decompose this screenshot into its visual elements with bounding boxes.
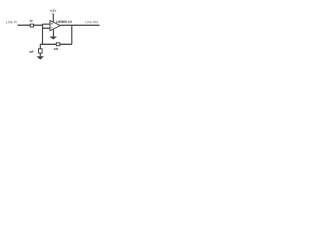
- ground C2: [37, 57, 44, 60]
- op-amp minus input marker: [51, 27, 52, 29]
- wire feedback bottom right segment: [60, 43, 72, 45]
- wire non-inverting input stub: [43, 23, 51, 25]
- resistor R1: [56, 43, 60, 46]
- wire vertical feedback branch: [42, 24, 44, 44]
- wire output to Line Out: [60, 24, 99, 26]
- op-amp U1: [50, 21, 60, 31]
- wire feedback bottom left segment: [40, 43, 56, 45]
- op-amp U1 part label: [56, 21, 71, 23]
- wire node to C2: [39, 44, 41, 48]
- wire input from Line In to C1: [18, 24, 31, 26]
- node Line In label: [6, 21, 16, 24]
- node Line Out label: [86, 21, 99, 23]
- capacitor C1 value label: [30, 20, 33, 22]
- wire op-amp to ground: [52, 29, 54, 37]
- capacitor C1: [30, 24, 33, 27]
- power +12V label: [50, 10, 57, 12]
- capacitor C2: [39, 49, 43, 53]
- power +12V terminal tick: [52, 13, 54, 16]
- wire +12V supply to op-amp: [52, 14, 54, 23]
- wire feedback drop from output: [71, 25, 73, 44]
- resistor R1 value label: [54, 48, 58, 50]
- ground op-amp: [50, 37, 57, 40]
- wire C1 to junction: [34, 24, 43, 26]
- op-amp plus input marker: [51, 23, 53, 25]
- wire C2 to ground: [39, 53, 41, 56]
- capacitor C2 value label: [30, 51, 34, 53]
- wire inverting input stub: [43, 27, 51, 29]
